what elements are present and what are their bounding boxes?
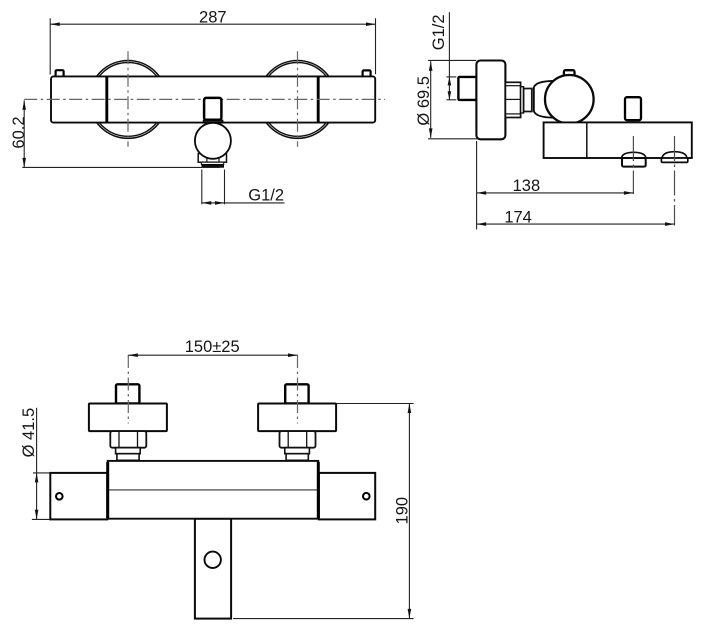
svg-text:190: 190: [394, 497, 412, 525]
svg-text:Ø 69.5: Ø 69.5: [415, 76, 433, 126]
svg-text:Ø 41.5: Ø 41.5: [20, 408, 38, 458]
svg-text:138: 138: [513, 177, 541, 195]
svg-text:G1/2: G1/2: [248, 186, 284, 204]
svg-text:287: 287: [199, 8, 227, 26]
svg-text:150±25: 150±25: [185, 338, 240, 356]
svg-text:G1/2: G1/2: [430, 14, 448, 50]
svg-text:174: 174: [504, 208, 532, 226]
svg-text:60.2: 60.2: [10, 116, 28, 148]
